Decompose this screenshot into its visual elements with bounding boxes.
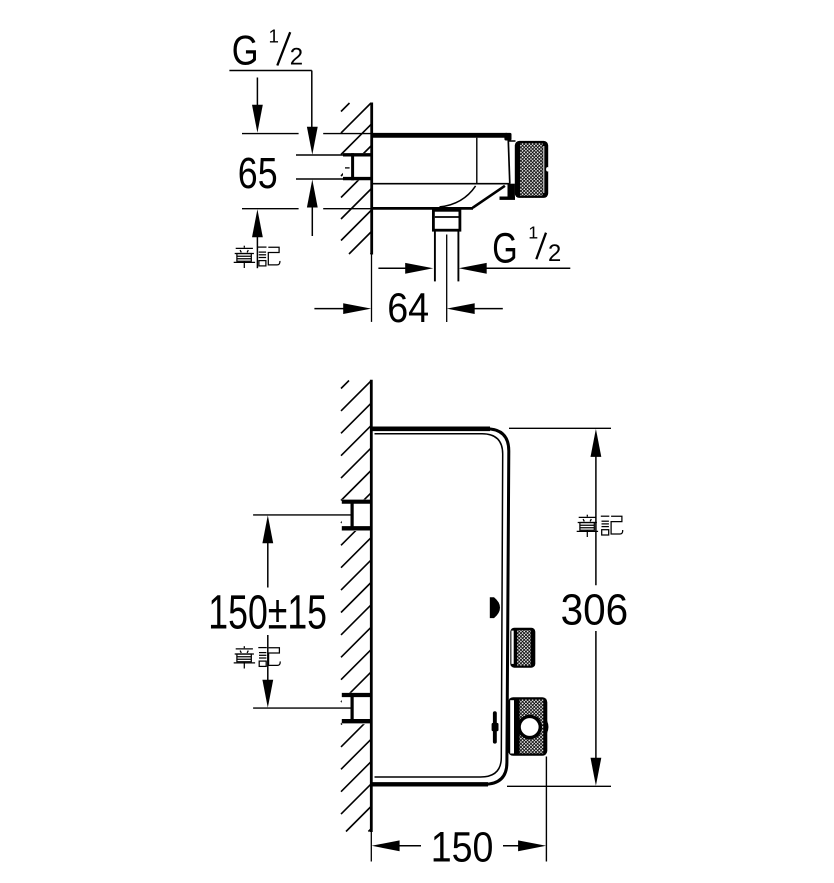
extension line 150±15 bottom bbox=[253, 707, 350, 709]
neck bottom thick line bbox=[500, 196, 516, 199]
extension line, valve top (65 dim) bbox=[242, 133, 299, 135]
knurled knob (top view) bbox=[515, 141, 548, 198]
pipe outer lines bbox=[434, 230, 436, 281]
unit outer outline top bbox=[372, 426, 490, 431]
wall anchor 1 bbox=[342, 499, 372, 531]
extension line, bottom of valve (65 dim) bbox=[242, 208, 299, 210]
svg-text:64: 64 bbox=[387, 285, 429, 331]
extension line 150±15 top bbox=[253, 514, 351, 516]
small knob (temperature) bbox=[510, 628, 535, 668]
dimension 64 row bbox=[314, 308, 345, 310]
svg-text:150±15: 150±15 bbox=[208, 586, 327, 640]
chin bottom line bbox=[372, 207, 473, 210]
dimension line 150 bbox=[372, 840, 400, 851]
valve body top line bbox=[372, 133, 507, 138]
dimension line 150±15 bbox=[262, 515, 273, 543]
chin diagonal bbox=[473, 186, 505, 208]
unit outer outline bottom bbox=[372, 782, 488, 786]
neck top line bbox=[509, 140, 516, 142]
pipe nut bbox=[433, 210, 460, 230]
stamp text 3 (zhang ji) bbox=[577, 515, 598, 537]
arrow G1/2-connector bottom (up) bbox=[307, 180, 318, 208]
button mark on unit face bbox=[490, 597, 500, 618]
wall anchor 2 bbox=[342, 693, 372, 724]
pipe center line bbox=[446, 235, 448, 323]
stamp text 1 (zhang ji) bbox=[234, 246, 255, 268]
dimension line 306 bbox=[591, 429, 602, 457]
extension line 306 bottom bbox=[507, 785, 611, 787]
extension line right (150 dim) bbox=[545, 757, 547, 862]
large knob (volume with circle) bbox=[547, 721, 548, 734]
svg-text:150: 150 bbox=[431, 824, 494, 872]
svg-text:2: 2 bbox=[548, 240, 561, 267]
valve top end nub bbox=[504, 133, 511, 141]
unit inner outline bbox=[375, 434, 503, 777]
arrow 65 bottom (up) bbox=[252, 209, 263, 237]
valve body right edge bbox=[508, 138, 510, 184]
svg-text:G: G bbox=[492, 224, 517, 272]
extension line below wall (150 dim) bbox=[370, 832, 372, 862]
arrow leader G1/2 down to connector top bbox=[307, 127, 318, 155]
wall face extension line down bbox=[371, 254, 373, 322]
svg-text:2: 2 bbox=[290, 44, 303, 71]
svg-text:306: 306 bbox=[561, 586, 629, 635]
wall hatching (top view) bbox=[341, 103, 372, 254]
wall face (front view) bbox=[370, 380, 373, 832]
wall face (top view) bbox=[370, 103, 373, 255]
valve body divider bbox=[476, 138, 478, 184]
svg-text:1: 1 bbox=[269, 25, 279, 46]
neck underside fill bbox=[508, 184, 515, 199]
extension lines, G1/2 inlet connector bbox=[296, 154, 344, 156]
valve body bottom line bbox=[372, 183, 510, 185]
arrow 65 top (down) bbox=[256, 78, 258, 109]
extension line 306 top bbox=[509, 427, 611, 429]
wall hatching (front view) bbox=[341, 381, 372, 832]
G1/2 pipe leader + arrows bbox=[478, 267, 570, 269]
lever mark on unit face bbox=[493, 711, 497, 743]
svg-text:1: 1 bbox=[528, 223, 538, 243]
unit outer outline right bbox=[484, 429, 509, 785]
stamp text 2 (zhang ji) bbox=[234, 646, 255, 668]
svg-text:G: G bbox=[232, 27, 259, 74]
leader line G1/2 top bbox=[229, 70, 311, 72]
G1/2 inlet connector (wall box) bbox=[343, 153, 372, 180]
connector center tick bbox=[345, 167, 350, 169]
svg-text:65: 65 bbox=[238, 150, 278, 198]
chin inner curve bbox=[440, 186, 476, 207]
